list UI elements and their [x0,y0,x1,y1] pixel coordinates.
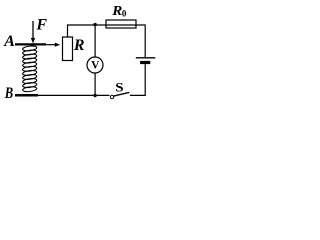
svg-text:A: A [3,33,15,50]
svg-text:F: F [35,16,47,33]
svg-text:0: 0 [122,8,127,18]
svg-text:V: V [91,60,100,72]
svg-text:B: B [4,85,13,102]
svg-text:S: S [115,80,124,94]
svg-text:R: R [111,4,122,19]
svg-text:R: R [73,37,85,54]
